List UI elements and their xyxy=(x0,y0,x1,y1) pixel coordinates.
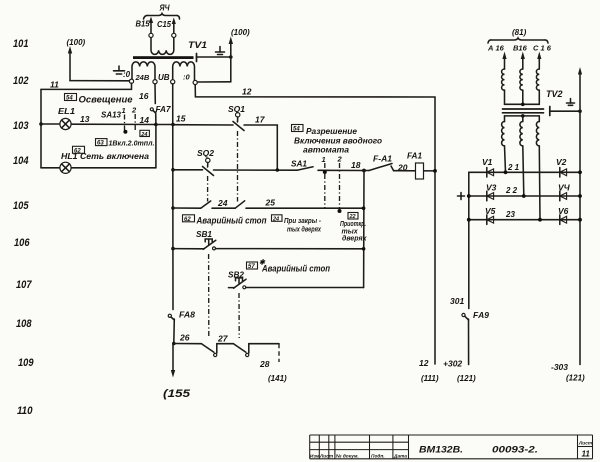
svg-text:(155: (155 xyxy=(163,388,191,400)
TV2 secondary phase 3 winding / node 23 xyxy=(536,116,540,220)
svg-text:23: 23 xyxy=(505,210,515,219)
node 109 row label xyxy=(18,357,34,369)
svg-text:54: 54 xyxy=(66,96,73,102)
svg-text:Аварийный стоп: Аварийный стоп xyxy=(261,264,330,274)
svg-text:16: 16 xyxy=(139,91,149,101)
svg-text:11: 11 xyxy=(582,450,591,459)
title block drawing number xyxy=(419,445,538,456)
node 18 xyxy=(351,160,366,172)
svg-text:ЯЧ: ЯЧ xyxy=(159,3,171,13)
SB2 linkage dash line xyxy=(238,293,240,338)
SB1 linkage dash line xyxy=(208,254,210,338)
label [62] Аварийный стоп row105 xyxy=(183,215,267,226)
svg-text:ВМ132В.: ВМ132В. xyxy=(419,445,463,456)
switch SA1 xyxy=(291,159,364,171)
svg-text:(141): (141) xyxy=(268,374,287,383)
svg-text:1: 1 xyxy=(322,155,326,164)
svg-text:Подп.: Подп. xyxy=(371,454,385,460)
svg-text:26: 26 xyxy=(179,333,190,343)
TV2 primary phase B winding xyxy=(520,52,525,105)
svg-text:(111): (111) xyxy=(421,374,439,383)
transformer TV2 label group (81) xyxy=(487,28,552,53)
right bus of relay section x435 xyxy=(434,97,436,364)
svg-text:12: 12 xyxy=(419,358,429,368)
svg-text:110: 110 xyxy=(17,405,33,417)
TV2 secondary phase 2 winding / node 22 xyxy=(520,116,524,196)
svg-text:107: 107 xyxy=(16,279,32,291)
TV2 secondary phase 1 winding / node 21 xyxy=(502,116,506,172)
contact 24 xyxy=(201,198,236,208)
label [62] HL1 Сеть включена xyxy=(61,146,149,161)
svg-text:106: 106 xyxy=(14,237,30,249)
node 101 row label xyxy=(13,38,29,50)
svg-text:11: 11 xyxy=(50,80,59,90)
svg-text:2: 2 xyxy=(131,106,137,115)
svg-text:(100): (100) xyxy=(67,38,86,47)
ground at TV1 right xyxy=(216,47,225,55)
node +302 xyxy=(443,359,476,384)
middle column x363.6 xyxy=(363,171,365,288)
svg-text:17: 17 xyxy=(255,115,266,125)
svg-text:2: 2 xyxy=(337,155,343,164)
svg-text:SB1: SB1 xyxy=(196,229,212,239)
contact 27 xyxy=(234,344,280,357)
svg-text:(121): (121) xyxy=(566,374,585,383)
svg-text:SQ2: SQ2 xyxy=(197,148,214,158)
title block small headers xyxy=(310,454,407,460)
middle bus x173 (UB line) xyxy=(173,84,186,310)
svg-text:тых дверях: тых дверях xyxy=(287,226,322,234)
svg-text:104: 104 xyxy=(13,155,29,167)
wire 12 bottom labels xyxy=(419,358,439,383)
svg-text:F-A1: F-A1 xyxy=(373,155,393,164)
svg-text:25: 25 xyxy=(265,198,276,208)
push button SB1 xyxy=(171,229,365,251)
svg-text:103: 103 xyxy=(13,120,29,132)
ground at TV2 xyxy=(567,99,575,106)
title block sheet cell xyxy=(578,441,593,459)
node 301 xyxy=(450,296,464,306)
svg-text:ТV2: ТV2 xyxy=(546,89,563,99)
left bus wire x41 xyxy=(40,89,42,167)
svg-text:При закры -: При закры - xyxy=(284,218,322,225)
svg-text:SA1: SA1 xyxy=(291,159,307,169)
node (100) arrow top-right xyxy=(229,28,250,82)
label [63] 1Вкл.2.0тпл. xyxy=(96,139,155,148)
svg-text:SA13: SA13 xyxy=(101,110,121,120)
wire 11 xyxy=(41,80,132,90)
svg-text:24: 24 xyxy=(272,217,279,223)
svg-text:24: 24 xyxy=(217,198,228,208)
svg-text:13: 13 xyxy=(80,114,90,124)
wire row 105 xyxy=(171,206,201,210)
contact 25 xyxy=(235,198,365,211)
svg-text:1Вкл.2.0тпл.: 1Вкл.2.0тпл. xyxy=(109,139,155,148)
svg-text:54: 54 xyxy=(293,127,300,133)
TV1 secondary winding left (:0 / 24V) xyxy=(129,62,157,84)
SQ2 linkage dash line xyxy=(207,176,209,202)
right bus of rectifier xyxy=(578,67,582,365)
svg-text:63: 63 xyxy=(97,141,104,147)
wire row 103 xyxy=(39,114,156,126)
wire 17 xyxy=(244,115,277,171)
node (100) arrow top-left xyxy=(67,38,86,81)
svg-text:FA8: FA8 xyxy=(179,310,195,320)
wire row 104 (HL1) xyxy=(41,125,156,168)
svg-text:22: 22 xyxy=(349,214,356,220)
switch SA13 position lines xyxy=(101,106,149,138)
svg-text:Лист: Лист xyxy=(578,441,593,447)
diode V4 xyxy=(558,182,571,200)
svg-text:+302: +302 xyxy=(443,359,462,369)
svg-text::0: :0 xyxy=(183,73,190,82)
svg-text:00093-2.: 00093-2. xyxy=(492,445,538,456)
svg-text:Освещение: Освещение xyxy=(79,95,133,105)
TV2 primary phase A winding xyxy=(502,52,507,105)
svg-text:24В: 24В xyxy=(135,73,150,82)
svg-text:62: 62 xyxy=(184,217,191,223)
svg-text:Аварийный стоп: Аварийный стоп xyxy=(196,216,267,226)
fuse FA1 xyxy=(394,152,437,180)
contact 26 xyxy=(202,334,234,357)
svg-text:-303: -303 xyxy=(551,362,568,372)
svg-text:дверях: дверях xyxy=(342,235,368,243)
diode V2 xyxy=(556,157,567,177)
svg-text:V3: V3 xyxy=(486,182,497,192)
switch F-A1 xyxy=(364,155,394,171)
wire 15/17 row (row 103 right part) xyxy=(156,123,233,127)
wire 16 / fuse-switch FA7 vertical xyxy=(139,84,172,126)
svg-text:А 16: А 16 xyxy=(487,44,505,53)
diode V3 xyxy=(486,182,497,200)
svg-text:FA7: FA7 xyxy=(156,104,172,114)
TV1 primary winding (B15/C15) xyxy=(136,3,180,55)
node 104 row label xyxy=(13,155,29,167)
diode V5 xyxy=(485,206,496,225)
svg-text:2 2: 2 2 xyxy=(505,186,518,195)
wire row SQ2/SA1 (row 104.5) xyxy=(171,168,297,172)
svg-text:57: 57 xyxy=(248,264,255,270)
node 103 row label xyxy=(13,120,29,132)
node 102 row label xyxy=(13,75,29,87)
svg-text:Дата: Дата xyxy=(393,454,407,460)
svg-text:V2: V2 xyxy=(556,157,567,167)
svg-text:FA1: FA1 xyxy=(407,152,423,161)
TV2 primary common bar xyxy=(505,103,540,107)
TV2 core xyxy=(503,89,563,116)
svg-text:UВ: UВ xyxy=(158,73,170,82)
svg-text:12: 12 xyxy=(242,87,252,97)
label [57]* Аварийный стоп xyxy=(247,259,331,274)
node 106 row label xyxy=(14,237,30,249)
svg-text:105: 105 xyxy=(13,200,29,212)
svg-text:EL1: EL1 xyxy=(58,106,75,116)
push button SB2 xyxy=(228,270,364,289)
svg-text:301: 301 xyxy=(450,296,464,306)
svg-text:V1: V1 xyxy=(482,157,493,167)
wire bridge row 3 / node 23 xyxy=(467,210,582,222)
left bus of rectifier xyxy=(468,172,470,308)
svg-text:C15: C15 xyxy=(157,20,172,29)
svg-text:28: 28 xyxy=(259,359,270,369)
label [22] При открытых дверях xyxy=(340,213,368,243)
svg-text:15: 15 xyxy=(176,114,186,124)
svg-text::0: :0 xyxy=(123,70,131,79)
SA1 position line 1 xyxy=(322,155,327,208)
TV2 primary phase C winding xyxy=(536,52,541,105)
node 108 row label xyxy=(16,318,32,330)
SQ1 linkage dash line xyxy=(237,131,239,202)
svg-text:С 1 6: С 1 6 xyxy=(533,44,552,53)
diode V1 xyxy=(482,157,494,177)
label [24] При закрытых дверях xyxy=(272,215,322,234)
TV2 secondary common bar xyxy=(505,114,540,118)
wire from UB right :0 terminal to riser xyxy=(197,81,231,83)
limit switch SQ2 xyxy=(197,148,214,176)
svg-text:HL1 Сеть включена: HL1 Сеть включена xyxy=(61,151,149,161)
svg-text:№ докум.: № докум. xyxy=(335,454,359,460)
svg-text:102: 102 xyxy=(13,75,29,87)
fuse-switch FA8 xyxy=(168,310,195,344)
svg-text:101: 101 xyxy=(13,38,29,50)
label [54] Осещение xyxy=(65,94,133,105)
wire bridge row 2 / node 22 xyxy=(467,186,582,198)
node 110 row label xyxy=(17,405,33,417)
ground at TV1 left :0 xyxy=(114,66,131,79)
svg-text:Изм: Изм xyxy=(310,454,320,460)
svg-text:Приоткр.: Приоткр. xyxy=(340,221,366,228)
svg-text:В16: В16 xyxy=(513,44,528,53)
wire down to (155 xyxy=(163,344,191,401)
svg-text:(100): (100) xyxy=(231,28,250,37)
svg-text:24: 24 xyxy=(140,132,147,138)
node 105 row label xyxy=(13,200,29,212)
svg-text:27: 27 xyxy=(217,334,229,344)
wire bridge row 1 / node 21 xyxy=(469,163,582,174)
wire from TV1 core tick to node 100 riser xyxy=(197,55,233,59)
label [54] Разрешение включения вводного автомата xyxy=(292,125,383,155)
svg-text:(81): (81) xyxy=(512,28,527,37)
diode V6 xyxy=(558,206,569,225)
svg-text:FА9: FА9 xyxy=(473,310,489,320)
svg-text:1: 1 xyxy=(122,106,126,115)
svg-text:Разрешение: Разрешение xyxy=(306,126,357,136)
svg-text:109: 109 xyxy=(18,357,34,369)
title block xyxy=(310,435,593,459)
node -303 xyxy=(551,362,585,383)
wire from (100) arrow to :0 terminal xyxy=(70,80,130,82)
svg-text:B15: B15 xyxy=(136,20,151,29)
wire 28 dashed stub xyxy=(259,344,287,383)
SA1 position line 2 xyxy=(337,155,343,214)
svg-text:Лист: Лист xyxy=(319,454,334,460)
lamp EL1 xyxy=(58,106,75,130)
wire TV2 tick to right bus xyxy=(550,109,582,113)
wire row 26/27 xyxy=(172,333,202,346)
lamp HL1 xyxy=(60,162,71,173)
svg-text:18: 18 xyxy=(351,160,361,170)
plus terminal xyxy=(458,193,465,200)
node 107 row label xyxy=(16,279,32,291)
svg-text:автомата: автомата xyxy=(303,145,349,155)
svg-text:14: 14 xyxy=(140,115,150,125)
svg-text:2 1: 2 1 xyxy=(507,163,520,172)
transformer TV1 xyxy=(133,40,207,62)
TV1 secondary winding right (UB / :0) xyxy=(158,62,197,85)
svg-text:тых: тых xyxy=(342,229,359,236)
svg-text:108: 108 xyxy=(16,318,32,330)
fuse-switch FA9 xyxy=(462,310,489,365)
svg-text:TV1: TV1 xyxy=(188,40,207,51)
limit switch SQ1 xyxy=(228,104,245,131)
wire 12 top run xyxy=(195,85,435,97)
svg-text:(121): (121) xyxy=(457,374,476,383)
core bar xyxy=(133,56,194,59)
